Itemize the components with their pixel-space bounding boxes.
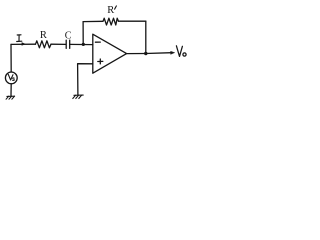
label Vo (176, 46, 186, 57)
resistor R' (103, 18, 119, 25)
wire (feedback top left segment) (83, 20, 103, 22)
node (inverting input junction) (82, 43, 85, 46)
wire (R to C) (51, 43, 66, 45)
resistor R (36, 41, 52, 48)
ground (non-inverting input) (73, 95, 83, 98)
voltage source Vs (5, 72, 17, 84)
wire (non-inverting input to ground) (78, 64, 93, 95)
label R (40, 30, 47, 41)
wire (output to Vo with arrow) (146, 52, 172, 55)
node (output junction) (144, 52, 147, 55)
wire (op-amp output to node) (127, 53, 146, 55)
ground (source) (6, 96, 15, 99)
wire (C to inverting input) (70, 43, 93, 45)
svg-text:R: R (107, 5, 114, 16)
wire (top horizontal input to resistor R) (11, 43, 36, 45)
current arrow I (22, 43, 25, 46)
svg-text:R: R (40, 30, 47, 41)
label C (65, 30, 72, 41)
label I (17, 35, 22, 42)
wire (Vs bottom to ground) (10, 84, 12, 96)
svg-text:C: C (65, 30, 72, 41)
op-amp U1 (93, 34, 127, 73)
output arrowhead (171, 51, 175, 54)
capacitor C (66, 40, 70, 48)
wire (junction up to feedback) (82, 22, 84, 45)
label Vs (8, 74, 13, 80)
wire (feedback down to output node) (145, 21, 147, 53)
wire (feedback top right segment) (119, 20, 146, 22)
wire (Vs top up to input corner) (10, 44, 12, 72)
label R' (107, 5, 114, 16)
